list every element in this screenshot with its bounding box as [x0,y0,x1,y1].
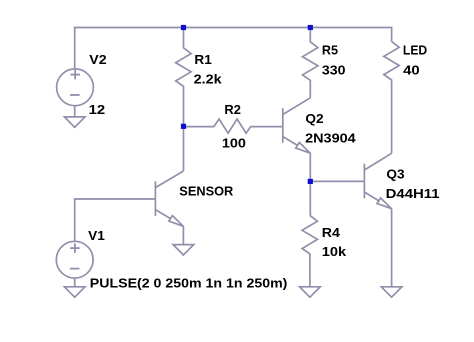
wire V1 to ground [74,278,76,287]
label R2 [224,102,241,117]
svg-text:100: 100 [222,136,246,151]
svg-text:2N3904: 2N3904 [305,131,356,146]
junction node R1-R2-sensor [181,124,186,129]
junction node N001 top of R1 [181,25,186,30]
wire Q2 emitter to R4 top [309,153,311,215]
label V1 [88,228,105,243]
svg-text:SENSOR: SENSOR [179,183,234,198]
svg-text:D44H11: D44H11 [386,186,440,201]
value 40 [403,62,420,77]
transistor Q3 [364,153,391,208]
ground under V1 [64,287,85,297]
value 2.2k [194,72,223,87]
ground under SENSOR [173,245,194,255]
label R4 [322,225,341,240]
svg-text:V1: V1 [88,228,105,243]
svg-text:LED: LED [403,43,427,58]
ground under V2 [64,117,85,127]
svg-text:R2: R2 [224,102,241,117]
resistor R2 [184,119,283,133]
wire V2 to ground [74,106,76,117]
junction node Q2e-R4-Q3b [308,179,313,184]
wire SENSOR emitter to ground [182,226,184,244]
label Q3 [386,166,404,181]
svg-text:2.2k: 2.2k [194,72,223,87]
value PULSE [90,276,288,291]
value 330 [322,62,346,77]
wire Q3 emitter to ground [391,209,393,287]
wire V1 to SENSOR base [75,199,156,241]
svg-text:330: 330 [322,62,346,77]
transistor SENSOR [155,171,183,226]
wire junction to Q3 base [310,180,364,182]
ground under R4 [300,287,321,297]
label R5 [322,42,338,57]
voltage source V1 [56,241,93,278]
svg-text:R4: R4 [322,225,341,240]
resistor R1 [176,28,191,127]
resistor R5 [303,28,318,98]
value 10k [322,244,347,259]
voltage source V2 [57,69,94,106]
label R1 [194,52,211,67]
wire R1 bottom to SENSOR collector [183,126,185,171]
svg-text:12: 12 [89,102,106,117]
svg-text:Q2: Q2 [305,111,323,126]
svg-text:R5: R5 [322,42,338,57]
svg-text:Q3: Q3 [386,166,404,181]
label V2 [89,52,106,67]
value D44H11 [386,186,440,201]
junction node N001 top of R5 [308,25,313,30]
ground under Q3 [381,287,402,297]
label LED [403,43,427,58]
svg-text:40: 40 [403,62,420,77]
svg-text:PULSE(2 0 250m 1n 1n 250m): PULSE(2 0 250m 1n 1n 250m) [90,276,288,291]
transistor Q2 [283,98,311,153]
resistor R4 [302,215,317,286]
resistor LED [384,42,399,154]
label SENSOR [179,183,234,198]
svg-text:10k: 10k [322,244,347,259]
value 12 [89,102,106,117]
wire top rail [75,28,392,69]
label Q2 [305,111,323,126]
value 2N3904 [305,131,356,146]
value 100 [222,136,246,151]
svg-text:V2: V2 [89,52,106,67]
svg-text:R1: R1 [194,52,211,67]
